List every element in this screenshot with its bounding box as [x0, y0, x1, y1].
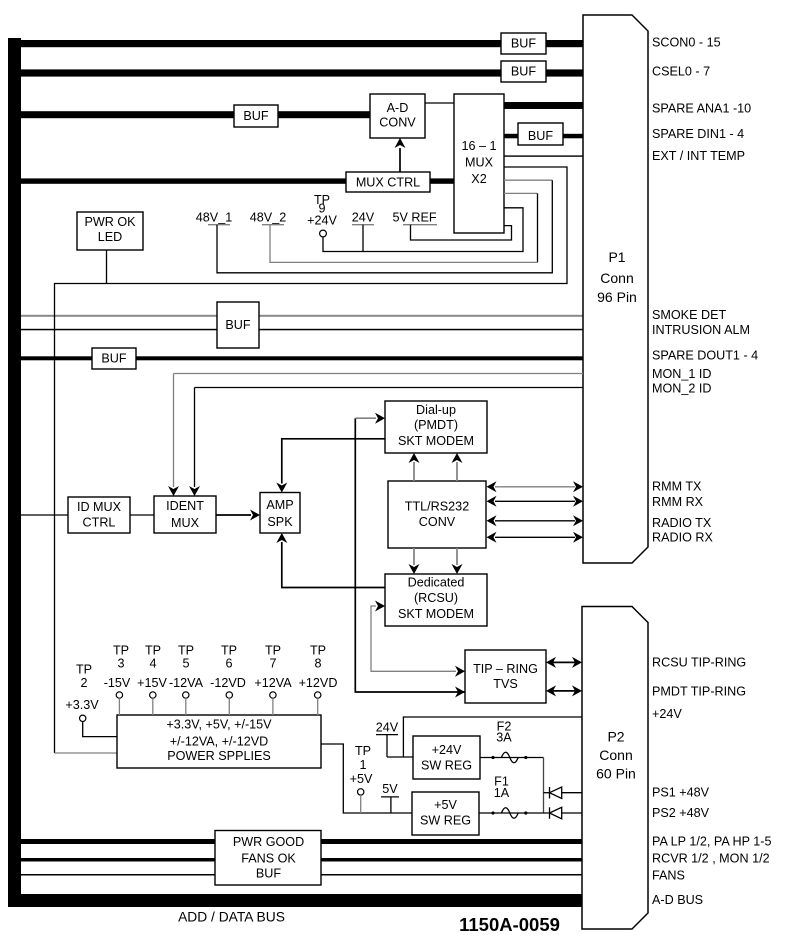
- svg-text:SPARE DIN1 - 4: SPARE DIN1 - 4: [652, 127, 744, 141]
- svg-text:MON_2 ID: MON_2 ID: [652, 382, 711, 396]
- svg-text:RMM TX: RMM TX: [652, 480, 702, 494]
- amplifier AMP SPK: [260, 493, 300, 534]
- node 5V REF source: [392, 211, 437, 225]
- wire bottom ADD/DATA bus bar: [8, 894, 582, 907]
- wire left vertical bus bar: [8, 38, 21, 907]
- svg-text:1150A-0059: 1150A-0059: [459, 914, 560, 935]
- wire RMM RX line (double arrow): [495, 500, 575, 502]
- svg-text:+/-12VA, +/-12VD: +/-12VA, +/-12VD: [170, 735, 268, 749]
- wire RMM TX line (gray, double arrow): [495, 486, 575, 488]
- modem Dedicated (RCSU) SKT MODEM: [385, 574, 487, 626]
- svg-text:TTL/RS232: TTL/RS232: [405, 500, 469, 514]
- svg-text:-15V: -15V: [104, 676, 131, 690]
- svg-text:BUF: BUF: [225, 318, 250, 332]
- wire TTL to Dedicated arrow 2: [456, 548, 458, 565]
- svg-text:24V: 24V: [376, 721, 399, 735]
- wire RADIO TX line (double arrow): [495, 520, 575, 522]
- buffer PWR GOOD FANS OK BUF: [215, 831, 321, 886]
- svg-text:SPARE DOUT1 - 4: SPARE DOUT1 - 4: [652, 349, 758, 363]
- wire A-D CONV to MUX: [425, 102, 454, 104]
- svg-text:Dedicated: Dedicated: [408, 576, 465, 590]
- wire MUX input spiral path 4 (24V net): [323, 208, 523, 252]
- svg-text:1: 1: [359, 758, 366, 772]
- svg-text:+12VD: +12VD: [299, 676, 338, 690]
- svg-text:+12VA: +12VA: [254, 676, 292, 690]
- wire FANS line: [21, 874, 582, 876]
- svg-text:TP: TP: [265, 643, 281, 657]
- wire 24V label drop: [362, 225, 364, 252]
- svg-text:CONV: CONV: [379, 116, 416, 130]
- svg-text:SKT MODEM: SKT MODEM: [398, 607, 474, 621]
- svg-text:SW REG: SW REG: [421, 759, 472, 773]
- wire SPARE ANA bus left segment: [21, 111, 370, 118]
- wire SPARE DOUT bus: [21, 356, 583, 360]
- svg-text:PMDT TIP-RING: PMDT TIP-RING: [652, 685, 746, 699]
- buffer BUF (SMOKE/INTRUSION lines): [217, 302, 259, 348]
- svg-text:+3.3V, +5V, +/-15V: +3.3V, +5V, +/-15V: [166, 717, 272, 731]
- testpoint TP6 -12VD: [210, 643, 246, 715]
- wire SCON0-15 bus: [21, 40, 583, 47]
- svg-text:+15V: +15V: [137, 676, 167, 690]
- svg-text:MUX: MUX: [171, 516, 200, 530]
- buffer BUF (CSEL bus): [501, 61, 546, 82]
- wire PWR OK LED drop: [106, 250, 108, 284]
- svg-text:(RCSU): (RCSU): [414, 591, 458, 605]
- wire Dedicated modem to AMP SPK bottom: [282, 542, 385, 588]
- connector P2 Conn 60 Pin: [582, 607, 648, 930]
- svg-text:ADD / DATA BUS: ADD / DATA BUS: [178, 910, 285, 925]
- svg-text:PA LP 1/2, PA HP 1-5: PA LP 1/2, PA HP 1-5: [652, 834, 772, 848]
- svg-text:MON_1 ID: MON_1 ID: [652, 367, 711, 381]
- svg-text:-12VD: -12VD: [210, 676, 246, 690]
- svg-text:96 Pin: 96 Pin: [597, 289, 637, 305]
- svg-text:ID MUX: ID MUX: [77, 500, 122, 514]
- wire MUX CTRL bus left: [21, 178, 346, 183]
- wire ID MUX CTRL to IDENT MUX: [130, 514, 154, 516]
- svg-text:AMP: AMP: [266, 498, 293, 512]
- wire Dedicated modem to TVS (gray): [371, 606, 456, 671]
- svg-text:Conn: Conn: [599, 747, 632, 763]
- svg-text:TP: TP: [178, 643, 194, 657]
- fuse F1 1A: [479, 775, 549, 819]
- regulator +5V SW REG: [412, 792, 479, 835]
- mux 16-1 MUX X2: [454, 94, 504, 233]
- svg-text:BUF: BUF: [528, 129, 553, 143]
- svg-text:FANS: FANS: [652, 869, 685, 883]
- node P2 pin labels: [652, 655, 772, 907]
- fuse F2 3A: [480, 720, 544, 763]
- svg-text:4: 4: [149, 656, 156, 670]
- svg-text:SW REG: SW REG: [420, 814, 471, 828]
- wire power supplies left link (gray): [55, 752, 118, 754]
- connector P1 Conn 96 Pin: [583, 15, 648, 563]
- supply POWER SPPLIES box: [117, 715, 321, 768]
- svg-text:TVS: TVS: [493, 677, 518, 691]
- wire RADIO RX line (double arrow): [495, 536, 575, 538]
- wire MUX input spiral path 5 (5V REF net): [411, 225, 512, 240]
- svg-text:MUX CTRL: MUX CTRL: [356, 176, 420, 190]
- svg-text:6: 6: [225, 656, 232, 670]
- wire MUX input spiral path 1 (PWR OK net): [55, 167, 568, 753]
- wire MUX input spiral path 3 (48V_2 net, gray): [504, 192, 538, 194]
- diode CR1 (PS2 +48V): [550, 807, 583, 819]
- buffer BUF (SPARE ANA bus): [234, 105, 278, 127]
- svg-text:8: 8: [314, 656, 321, 670]
- converter A-D CONV: [370, 94, 425, 138]
- svg-text:PS2 +48V: PS2 +48V: [652, 806, 710, 820]
- wire +24V line to P2: [403, 717, 582, 757]
- svg-text:TP: TP: [76, 662, 92, 676]
- testpoint TP5 -12VA: [169, 643, 204, 715]
- wire TTL to Dial-up arrow 2: [456, 462, 458, 481]
- wire CSEL0-7 bus: [21, 69, 583, 76]
- svg-text:RCSU TIP-RING: RCSU TIP-RING: [652, 655, 746, 669]
- svg-text:POWER SPPLIES: POWER SPPLIES: [167, 749, 271, 763]
- svg-text:60 Pin: 60 Pin: [596, 766, 636, 782]
- svg-text:CTRL: CTRL: [83, 516, 116, 530]
- wire ID MUX CTRL bus: [21, 514, 68, 516]
- svg-text:X2: X2: [471, 172, 486, 186]
- svg-text:16 – 1: 16 – 1: [461, 139, 496, 153]
- svg-text:RADIO RX: RADIO RX: [652, 531, 713, 545]
- wire SPARE ANA bus right segment: [504, 102, 583, 109]
- svg-text:PS1 +48V: PS1 +48V: [652, 785, 710, 799]
- svg-text:SMOKE DET: SMOKE DET: [652, 308, 726, 322]
- svg-text:FANS OK: FANS OK: [241, 851, 296, 865]
- wire SPARE DIN bus: [504, 134, 583, 139]
- wire PMDT TIP-RING line (double arrow): [552, 690, 575, 692]
- node P1 pin labels: [652, 35, 758, 544]
- controller MUX CTRL: [346, 172, 430, 192]
- svg-text:P1: P1: [608, 249, 625, 265]
- svg-text:2: 2: [80, 676, 87, 690]
- svg-text:SPK: SPK: [267, 515, 293, 529]
- wire MUX input spiral path 2 (48V_1 net): [504, 179, 552, 181]
- svg-text:TP: TP: [355, 744, 371, 758]
- wire MON_2 ID line: [195, 387, 584, 389]
- svg-text:MUX: MUX: [465, 156, 494, 170]
- wire IDENT MUX to AMP SPK arrow: [216, 514, 251, 516]
- converter TTL/RS232 CONV: [388, 481, 486, 548]
- svg-text:A-D: A-D: [387, 101, 409, 115]
- svg-text:+24V: +24V: [652, 707, 682, 721]
- svg-text:SKT MODEM: SKT MODEM: [398, 434, 474, 448]
- testpoint TP4 +15V: [137, 643, 167, 715]
- diode CR2 (PS1 +48V): [544, 787, 583, 799]
- svg-text:SPARE ANA1 -10: SPARE ANA1 -10: [652, 102, 751, 116]
- svg-text:+5V: +5V: [350, 772, 373, 786]
- svg-text:5: 5: [182, 656, 189, 670]
- svg-text:5V: 5V: [382, 782, 398, 796]
- svg-text:RCVR 1/2 , MON 1/2: RCVR 1/2 , MON 1/2: [652, 852, 770, 866]
- buffer BUF (SCON bus): [501, 33, 546, 54]
- svg-text:INTRUSION ALM: INTRUSION ALM: [652, 323, 750, 337]
- wire F2 to diode junction vertical (gray): [543, 758, 545, 814]
- svg-text:RMM RX: RMM RX: [652, 495, 704, 509]
- svg-text:TP: TP: [113, 643, 129, 657]
- wire EXT/INT TEMP line: [504, 155, 583, 156]
- svg-text:PWR OK: PWR OK: [84, 215, 136, 229]
- svg-text:SCON0 - 15: SCON0 - 15: [652, 35, 721, 49]
- wire Dial-up modem to AMP SPK top: [282, 439, 385, 484]
- svg-text:1A: 1A: [494, 786, 510, 800]
- regulator +24V SW REG: [413, 736, 480, 779]
- indicator PWR OK LED: [77, 212, 143, 250]
- wire power box to 5V rail: [321, 744, 412, 813]
- testpoint TP3 -15V: [104, 643, 131, 715]
- svg-text:RADIO TX: RADIO TX: [652, 516, 712, 530]
- modem Dial-up (PMDT) SKT MODEM: [385, 401, 487, 453]
- wire PA LP/HP bus: [21, 839, 582, 844]
- testpoint TP7 +12VA: [254, 643, 292, 715]
- svg-text:TP: TP: [310, 643, 326, 657]
- controller ID MUX CTRL: [68, 497, 130, 533]
- svg-text:+3.3V: +3.3V: [65, 698, 99, 712]
- svg-text:TP: TP: [221, 643, 237, 657]
- svg-text:TIP – RING: TIP – RING: [473, 662, 538, 676]
- svg-text:LED: LED: [98, 230, 123, 244]
- testpoint TP1 +5V: [350, 744, 373, 813]
- svg-text:Conn: Conn: [600, 270, 633, 286]
- protector TIP-RING TVS: [465, 650, 546, 703]
- wire TVS riser to Dial-up modem arrow: [355, 418, 465, 692]
- svg-text:48V_1: 48V_1: [196, 211, 232, 225]
- svg-text:7: 7: [269, 656, 276, 670]
- svg-text:TP: TP: [145, 643, 161, 657]
- svg-text:48V_2: 48V_2: [250, 211, 286, 225]
- svg-text:+24V: +24V: [432, 743, 462, 757]
- wire MON_1 ID line (gray): [174, 373, 584, 375]
- svg-text:+5V: +5V: [434, 798, 457, 812]
- wire MUX CTRL to MUX link: [430, 178, 454, 183]
- wire INTRUSION ALM line: [21, 329, 583, 331]
- testpoint TP9 +24V: [307, 193, 337, 237]
- wire SMOKE DET line: [21, 315, 583, 317]
- svg-text:PWR GOOD: PWR GOOD: [233, 835, 304, 849]
- svg-text:IDENT: IDENT: [166, 499, 204, 513]
- svg-text:BUF: BUF: [101, 352, 126, 366]
- svg-text:A-D BUS: A-D BUS: [652, 893, 703, 907]
- buffer BUF (SPARE DOUT bus): [92, 348, 136, 369]
- svg-text:24V: 24V: [352, 211, 375, 225]
- svg-text:P2: P2: [607, 729, 624, 745]
- svg-text:+24V: +24V: [307, 214, 337, 228]
- svg-text:Dial-up: Dial-up: [416, 403, 456, 417]
- node 24V rail label: [376, 721, 413, 758]
- node 5V label: [381, 782, 399, 813]
- node 24V source: [352, 211, 375, 225]
- svg-text:BUF: BUF: [511, 65, 536, 79]
- svg-text:3A: 3A: [496, 730, 512, 744]
- wire TTL to Dedicated arrow 1: [413, 548, 415, 565]
- svg-text:BUF: BUF: [256, 867, 281, 881]
- wire TTL to Dial-up arrow 1: [413, 462, 415, 481]
- svg-text:-12VA: -12VA: [169, 676, 204, 690]
- buffer BUF (SPARE DIN bus): [518, 123, 563, 145]
- svg-text:5V REF: 5V REF: [392, 211, 436, 225]
- svg-text:CSEL0 - 7: CSEL0 - 7: [652, 64, 710, 78]
- svg-text:3: 3: [117, 656, 124, 670]
- svg-text:BUF: BUF: [511, 37, 536, 51]
- svg-text:CONV: CONV: [419, 515, 456, 529]
- wire RCSU TIP-RING line (double arrow): [552, 661, 575, 663]
- node 48V_1 source: [196, 211, 232, 225]
- testpoint TP8 +12VD: [299, 643, 338, 715]
- node 48V_2 source: [250, 211, 286, 225]
- svg-text:BUF: BUF: [243, 109, 268, 123]
- svg-text:(PMDT): (PMDT): [414, 418, 458, 432]
- wire MUX CTRL to A-D CONV arrow: [399, 148, 401, 172]
- mux IDENT MUX: [154, 496, 216, 533]
- svg-text:EXT / INT TEMP: EXT / INT TEMP: [652, 149, 745, 163]
- testpoint TP2 +3.3V: [65, 662, 117, 736]
- wire RCVR/MON bus: [21, 858, 582, 862]
